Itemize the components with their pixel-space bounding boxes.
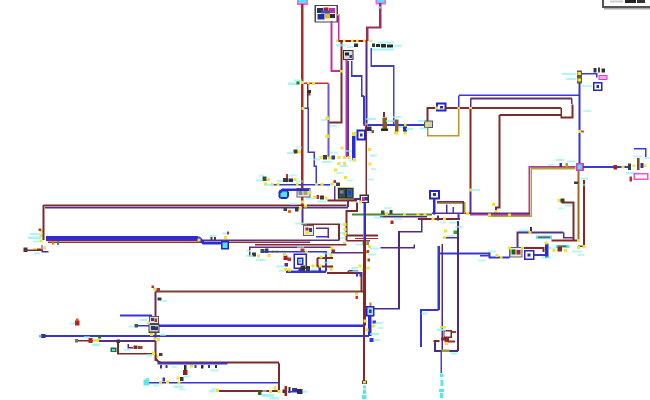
wire maroon from icon B to junction [428, 108, 436, 122]
wire blue stub below H2 [298, 269, 301, 272]
wire maroon down left column [329, 41, 342, 123]
error cluster glyph row [370, 40, 403, 51]
dot y235 [363, 234, 366, 237]
icon H small blue box [222, 242, 229, 249]
wire maroon y241 long left [48, 241, 310, 243]
wire maroon node G down-left [346, 203, 357, 241]
wire blue L bottom [439, 254, 510, 258]
brown left end cluster [152, 285, 160, 290]
wire blue top y95 [459, 94, 580, 96]
wire blue mid stub [452, 207, 454, 213]
sub-VI icon K [315, 6, 337, 23]
wire blue y383 [149, 382, 279, 384]
wire purple long mid [441, 244, 443, 351]
junction dots y108 [457, 107, 472, 110]
junction cluster x152-158 y351-359 [147, 352, 162, 359]
twin olive boxes [338, 187, 354, 199]
wire maroon y200 [328, 200, 358, 202]
wire from T2 [367, 3, 380, 41]
tick above purple rect [519, 227, 532, 234]
blue bar node [541, 241, 556, 258]
wire maroon small left y250 [24, 249, 43, 251]
wire blue top right [582, 74, 597, 78]
wire red horizontal y83 [304, 82, 328, 84]
wire blue stub y325 left [136, 325, 149, 327]
red node to DMM [553, 247, 567, 252]
marks below N1 [574, 178, 588, 187]
wire tan below N1 [578, 171, 580, 241]
cluster right of N1 [626, 156, 650, 175]
junction at x152 y336 [150, 333, 166, 341]
wire maroon y244 long [255, 244, 346, 246]
wire maroon pair vertical [316, 258, 318, 266]
wire blue stub bottom right [288, 391, 302, 393]
purple rectangle right [517, 232, 563, 248]
node tick on T2 wire [379, 7, 383, 9]
wire blue thick y189 [284, 188, 309, 191]
cluster under y125 line B tan bar [381, 112, 394, 131]
wire maroon center-bottom rect [327, 273, 361, 291]
wire blue stub E [534, 254, 545, 256]
wire purple right box edge [564, 232, 574, 237]
wire blue y184 [272, 184, 330, 186]
dots on maroon pair [319, 253, 333, 271]
green tick left [57, 241, 59, 245]
glyphs near purple elbow [111, 346, 143, 353]
icon E blue square [525, 251, 534, 260]
marks near taper [198, 232, 230, 242]
wire purple mid v [446, 205, 448, 214]
wire yellow stub from sub-VI [337, 14, 340, 16]
left end of y391 [210, 388, 220, 393]
wire blue thick central vertical [364, 203, 366, 326]
left small cluster lower [24, 248, 42, 255]
dark cap of blue stub [297, 389, 307, 394]
hub bottom junction cluster [343, 241, 379, 250]
wire dark red right column [578, 180, 584, 246]
cluster row far left y175-186 [256, 175, 274, 187]
wire maroon main right y108 [446, 107, 562, 109]
cluster x337-352 y155-166 [337, 156, 355, 167]
wire maroon y341 left [76, 340, 93, 342]
wire blue short [363, 96, 365, 125]
marks on pair near N1 [548, 159, 575, 167]
wire maroon thick to DMM [552, 239, 579, 241]
wire magenta from sub-VI bottom [332, 21, 341, 71]
junction mark x118 [116, 340, 119, 343]
cluster under y125 line C tan bar 2 [393, 116, 406, 134]
icon blue square right [594, 83, 602, 91]
wire maroon pair right B [317, 265, 333, 267]
cyan label to DMM [556, 245, 569, 248]
wire yellow-green into N1 and down [488, 169, 576, 217]
left cap of y336 [39, 334, 46, 338]
cyan label GPIB [536, 236, 552, 239]
wire purple jog right [571, 98, 573, 104]
wire thick blue down to y310 [438, 246, 440, 310]
icon B blue square [435, 104, 446, 111]
cyan dangle below maroon [362, 385, 366, 399]
wire purple thick y207 [45, 207, 348, 209]
wire red thin y238 [355, 237, 378, 239]
wire maroon U right [561, 105, 572, 118]
wire purple y248 segment [381, 245, 415, 248]
wire blue loop top [261, 252, 326, 272]
node N1 magenta junction [577, 164, 583, 170]
dots on red y83 [288, 80, 315, 85]
bus left end cluster [374, 207, 402, 224]
glyphs on blue bottom [301, 265, 321, 272]
icon H2 big blue square [294, 254, 306, 268]
wire maroon y219 [418, 218, 460, 220]
lower cluster row [246, 249, 279, 262]
wire magenta into N1 and down [470, 167, 576, 215]
dots on blue y184 [271, 183, 324, 186]
wire blue second line [480, 255, 489, 257]
wire crimson from T1 down [301, 4, 303, 207]
top right cluster column [562, 71, 592, 88]
gray box pair left of hub [297, 189, 312, 197]
wire blue y363 overlay [158, 363, 228, 365]
wire purple drop [470, 98, 472, 107]
cyan smear above inner rect [295, 222, 307, 224]
orange tick left [52, 241, 55, 244]
thick blue bar x354 [352, 134, 355, 160]
wire purple y237 [444, 237, 458, 239]
cyan dangle marks [439, 374, 444, 399]
cluster maroon small box left of purple [437, 326, 456, 345]
cluster left of H2 [276, 263, 291, 272]
wire maroon right edge bottom [278, 362, 280, 391]
stacked boxes x150-159 [140, 317, 159, 333]
cluster at maroon stub [558, 199, 573, 210]
junction dots on y41 [336, 40, 366, 73]
wire purple small y270 [348, 270, 358, 272]
wire purple y253 to hub [331, 252, 363, 254]
icon glyphs above blue [594, 68, 606, 73]
junction dots y125 [365, 123, 407, 126]
wire blue y315 short [120, 315, 152, 317]
left cluster column [28, 229, 46, 250]
cluster row y175-182 center [277, 174, 303, 183]
marks on y383 [153, 376, 185, 390]
icon F blue square [430, 191, 439, 198]
cap at maroon end [362, 381, 367, 384]
cluster top of T1 wire y150 [287, 147, 302, 155]
blue tick on rect top [353, 270, 362, 277]
node G small box [359, 195, 369, 203]
wire blue left jog bottom [421, 310, 439, 347]
wire maroon second y115 [499, 114, 561, 116]
yellow cap on bar [352, 132, 356, 161]
wire purple top y98 [471, 97, 572, 99]
wire maroon central upper [365, 125, 367, 196]
purple bottom box [435, 342, 458, 351]
wire maroon left edge [43, 205, 45, 240]
inner blue line [316, 236, 328, 238]
wire maroon y204 long [44, 204, 347, 206]
wire maroon stub right [562, 203, 574, 240]
wire indigo tall x328 [327, 83, 329, 157]
wire blue curve into box [281, 190, 285, 193]
cyan smears below y41 [336, 44, 358, 49]
wire purple hook left [42, 245, 49, 252]
T1 junction cluster [284, 201, 307, 213]
wire purple under green [380, 216, 427, 218]
junction box at x428 [418, 120, 433, 130]
cluster row y195-200 left of maroon y200 [306, 195, 328, 203]
wire blue dangling bottom [440, 351, 442, 373]
inner maroon rect [302, 224, 339, 241]
wire brown link to hub [361, 290, 365, 292]
icon A config node [344, 51, 354, 60]
icon J small blue square [358, 131, 365, 140]
gray icon D [508, 246, 524, 256]
wire maroon y362 [155, 355, 279, 362]
wire indigo right tall [457, 221, 459, 351]
cyan blob left of y383 [143, 378, 149, 386]
dots y219 [432, 214, 463, 238]
gray icon I [304, 226, 314, 236]
wire maroon stub below junction [307, 84, 309, 108]
inner purple rect [316, 228, 328, 238]
icon blue with orange stub [367, 303, 374, 316]
extra hub speckles [334, 147, 353, 182]
wire blue thick left long [46, 236, 199, 239]
wire magenta 2 [338, 16, 340, 41]
wire blue from icon A [347, 61, 349, 157]
cluster under y125 line D [403, 127, 413, 135]
wire gold U [428, 109, 459, 136]
cluster x88-99 y337-346 [84, 336, 101, 346]
cluster x320-336 y154-163 [313, 152, 337, 164]
marks at junction x364-376 [363, 319, 383, 342]
tick row below y363 [160, 365, 219, 378]
wire blue drop to maroon [458, 95, 460, 107]
terminal T1 [298, 0, 307, 4]
hook mark on maroon stub [308, 90, 312, 95]
wire thick blue below F [433, 198, 436, 214]
red X mark upper left [70, 318, 79, 325]
cluster at purple stair top [325, 180, 340, 187]
dots near hub on y253 [364, 250, 377, 261]
wire maroon y241 [346, 240, 370, 242]
red blob on blue [614, 165, 625, 170]
wire magenta from icon A [345, 60, 347, 158]
wire maroon vertical v2 [496, 115, 500, 213]
wire purple stair to row [334, 186, 336, 200]
wire purple y341 to x155 [99, 340, 155, 342]
wire maroon pair right A [317, 257, 333, 259]
dots below brown corner [355, 292, 358, 299]
wire purple y239 [46, 239, 339, 241]
green tick left end [75, 339, 78, 342]
wire green bus [352, 213, 432, 215]
cluster under y125 line A [364, 118, 376, 134]
ticks right of center column [368, 148, 377, 181]
pink constant [599, 76, 607, 80]
pink constant 2 [630, 174, 648, 182]
wire dark red horizontal y41 [337, 40, 368, 42]
legend box top right [603, 0, 650, 10]
green mark at stub left [128, 324, 138, 327]
wire big blue vertical right [579, 83, 581, 164]
wire maroon vertical v1 [470, 109, 472, 190]
wire blue from N1 right [583, 166, 628, 168]
tick on big blue [578, 110, 591, 133]
wire purple bus [432, 212, 530, 214]
wire blue loop bottom [286, 270, 326, 272]
cluster hub x358-366 y264-272 [352, 265, 369, 273]
purple elbow small [128, 344, 133, 348]
dots on blue L [478, 251, 503, 262]
wire blue error line [371, 48, 394, 125]
wire blue long y326 [159, 325, 364, 328]
wire purple small vertical [347, 271, 349, 274]
wire maroon y391 [218, 390, 279, 392]
cyan tick on blue jog [422, 313, 428, 315]
wire maroon down x118 [118, 341, 155, 354]
marks on bottom box [434, 340, 458, 355]
junction dot v1 [469, 189, 480, 192]
ticks on indigo [321, 117, 337, 138]
lower purple rect top [250, 247, 331, 256]
wire blue taper [199, 238, 223, 243]
junction dots v2 [492, 203, 497, 213]
wire maroon mid bottom [522, 248, 543, 252]
bottom cluster x256-303 [258, 386, 297, 400]
dot purple y237 [443, 236, 446, 239]
ticks on hub vertical [338, 223, 347, 239]
junction big blue bar x370 [368, 317, 372, 337]
wire purple below T1 junction [301, 208, 303, 223]
wire brown long y291 [155, 290, 361, 292]
wire blue square-wave [352, 61, 364, 96]
wire maroon central vertical to 382 [363, 241, 365, 382]
wire purple into node G [348, 199, 361, 207]
wire maroon y235 [346, 234, 378, 236]
wire purple pair top [437, 202, 463, 214]
wire blue horizontal y125 [364, 124, 428, 126]
terminal T2 [376, 0, 385, 4]
mark on left vertical [158, 298, 168, 302]
wire blue elbow top right [634, 149, 646, 157]
junction dots right column [572, 239, 586, 256]
wire purple continuation v1 [470, 190, 472, 213]
dots on bus [403, 212, 511, 217]
wire blue long y336 [46, 335, 369, 337]
rounded blue box with cyan [279, 190, 288, 198]
wire purple down from error cluster [365, 42, 367, 125]
dot at staircase top [301, 107, 304, 110]
cluster x331 y246-258 [330, 247, 342, 258]
wire blue staircase [303, 108, 317, 184]
wire dark vertical left x155 [154, 291, 156, 361]
red marks on blue top [283, 246, 308, 261]
wire gold pair top [437, 203, 465, 213]
wire purple path down left [370, 220, 422, 309]
